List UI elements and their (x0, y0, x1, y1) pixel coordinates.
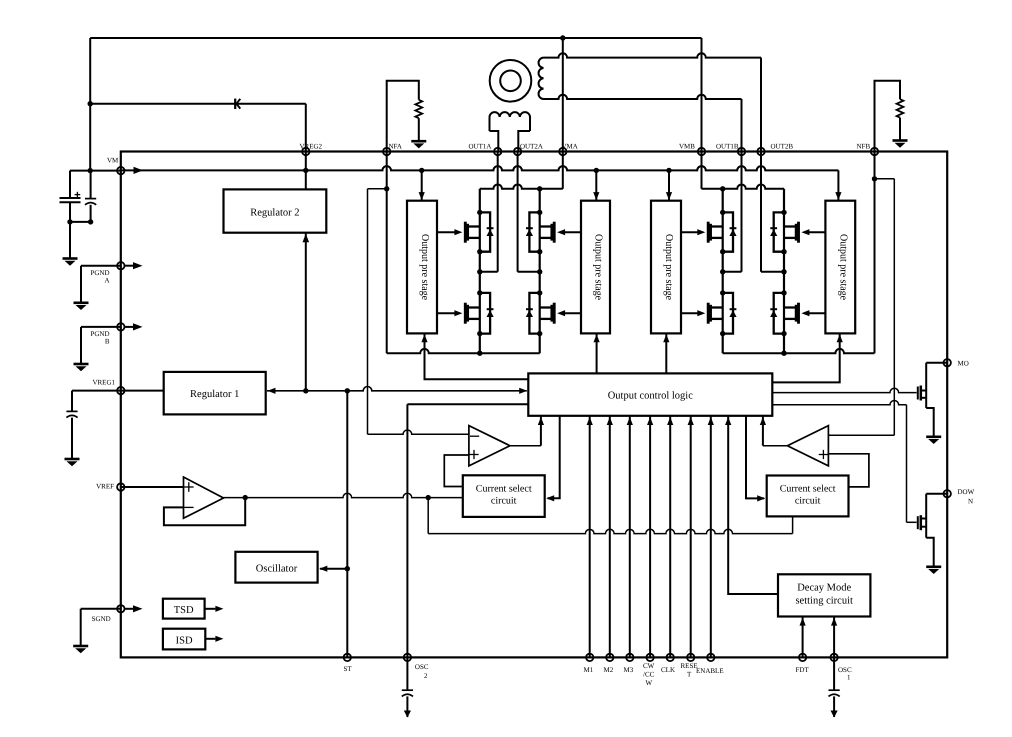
ground (C3) (65, 458, 80, 461)
wire VREG1 pin to Regulator1 (121, 390, 164, 392)
wire drop to VREG2 pin (305, 104, 307, 152)
junction node Q5/Q6 (OUT1B) y292 (720, 290, 725, 295)
wire bridge B supply rail (702, 185, 785, 189)
pin ENABLE (707, 654, 714, 661)
wire PGND A drop (80, 266, 82, 303)
wire capacitor common rail (70, 221, 91, 223)
wire C2 bottom lead (90, 205, 92, 222)
pin VM (117, 167, 124, 174)
wire ST riser (346, 391, 348, 658)
pin NFB (871, 148, 878, 155)
wire VM rail to prestage3 top (668, 170, 670, 200)
wire VMA drop to rail (562, 152, 564, 189)
pin CW (646, 654, 653, 661)
svg-text:/CC: /CC (643, 671, 655, 679)
arrow VM into chip (134, 167, 144, 174)
junction node Q3/Q4 (OUT2A) y251 (537, 249, 542, 254)
comparator U9 triangle (787, 426, 828, 466)
wire OSC2 cap lead (406, 657, 408, 690)
junction node Q5/Q6 (OUT1B) y271 (720, 269, 725, 274)
arrow ENABLE into OCL (708, 417, 714, 425)
wire gate drive B1 high (681, 231, 698, 233)
arrow comparator B into OCL (760, 417, 766, 425)
junction node Q3/Q4 (OUT2A) y212 (537, 210, 542, 215)
wire NFB jog (875, 178, 895, 180)
op-amp U7 plus input mark (184, 486, 194, 488)
svg-text:OSC: OSC (415, 663, 429, 671)
transistor Q5/Q6 (OUT1B) low-side (707, 303, 710, 324)
pin SGND (117, 605, 124, 612)
wire bridge A supply rail (480, 184, 563, 188)
svg-text:M3: M3 (623, 666, 633, 674)
junction node Q1/Q2 (OUT1A) y333 (477, 331, 482, 336)
junction node Q7/Q8 (OUT2B) y333 (781, 331, 786, 336)
svg-text:VREF: VREF (96, 482, 114, 490)
capacitor C1 electrolytic lead (69, 171, 71, 198)
capacitor C1 (electrolytic) (60, 197, 81, 199)
svg-text:OUT2A: OUT2A (520, 143, 543, 151)
pin OUT1A (494, 148, 501, 155)
transistor Q3/Q4 (OUT2A) high-side (553, 222, 556, 243)
junction VREG2 rail / reg2 output (303, 388, 308, 393)
svg-text:Output pre stage: Output pre stage (663, 234, 674, 301)
junction cap rail right (88, 219, 93, 224)
svg-text:ENABLE: ENABLE (696, 667, 724, 675)
wire DOWN gate drive (772, 400, 906, 404)
wire reference into select B (792, 516, 794, 533)
junction node Q7/Q8 (OUT2B) y212 (781, 210, 786, 215)
wire VREF pin to op-amp (121, 486, 184, 488)
wire VREG2 pin to Regulator2 input (305, 152, 307, 190)
junction railB / node B1 (720, 186, 725, 191)
pin NFA (383, 148, 390, 155)
wire MO source to ground (926, 408, 934, 436)
arrow comparator A into OCL (538, 417, 544, 425)
junction op-amp output (243, 495, 248, 500)
svg-text:CW: CW (643, 662, 655, 670)
junction node Q1/Q2 (OUT1A) y212 (477, 210, 482, 215)
ground (PGND A) (74, 301, 89, 304)
svg-text:TSD: TSD (174, 605, 194, 616)
ground (RsA) (411, 140, 426, 143)
arrow SGND into chip (125, 608, 135, 610)
transistor Q1/Q2 (OUT1A) high-side (464, 222, 467, 243)
wire VMB riser from top rail (701, 38, 703, 152)
svg-text:Output pre stage: Output pre stage (593, 234, 604, 301)
wire coil A left leg to OUT1A (490, 131, 499, 152)
svg-text:Current select: Current select (476, 483, 532, 494)
pin VMB (698, 148, 705, 155)
wire CW riser (649, 416, 651, 658)
wire internal VM rail (121, 166, 839, 170)
wire VM supply top rail (90, 37, 701, 39)
junction VM rail / prestage1 (419, 168, 424, 173)
wire Q5/Q6 (OUT1B) output drop (741, 152, 743, 272)
ground (VM capacitors) (63, 257, 78, 260)
svg-text:DOW: DOW (957, 488, 974, 496)
wire Q1/Q2 (OUT1A) output drop (497, 152, 499, 272)
wire MO gate drive (772, 388, 916, 392)
arrow RESET into OCL (688, 417, 694, 425)
svg-text:Output pre stage: Output pre stage (837, 234, 848, 301)
junction VREG2 rail / ST (345, 388, 350, 393)
wire VM rail to prestage1 top (421, 170, 423, 200)
op-amp U7 minus input mark (184, 506, 194, 508)
pin OUT2A (514, 148, 521, 155)
wire OCL to prestage2 input (596, 334, 598, 373)
svg-text:Decay Mode: Decay Mode (797, 582, 851, 593)
wire coil B bottom to OUT1B (544, 95, 742, 99)
pin MO (944, 359, 951, 366)
wire Q5/Q6 (OUT1B) output stub (723, 271, 742, 273)
wire NFA to resistor RsA (387, 81, 419, 152)
ground (SGND) (73, 645, 88, 648)
transistor Q3/Q4 (OUT2A) low-side (553, 303, 556, 324)
junction node Q3/Q4 (OUT2A) y292 (537, 290, 542, 295)
junction node Q1/Q2 (OUT1A) y271 (477, 269, 482, 274)
wire NFB to resistor RsB (875, 81, 901, 152)
junction node Q5/Q6 (OUT1B) y212 (720, 210, 725, 215)
pin VREG2 (302, 148, 309, 155)
wire MO pin lead (926, 362, 947, 364)
wire comparator B to OCL (762, 416, 764, 446)
wire DOWN drain drop (925, 494, 927, 538)
wire gate drive B1 low (681, 312, 698, 314)
wire OCL to decay circuit (728, 416, 778, 594)
output pre stage U4 box (825, 201, 855, 334)
junction source rail A / node A1 (477, 351, 482, 356)
wire bridge A source rail (387, 349, 540, 353)
wire ENABLE riser (710, 416, 712, 658)
svg-text:OUT1A: OUT1A (468, 143, 491, 151)
wire VM pin lead (70, 170, 121, 172)
wire OSC2 to OCL (407, 403, 528, 405)
comparator U8 minus mark (470, 435, 479, 437)
wire OUT1B drop (741, 99, 743, 152)
wire OCL to select A (548, 416, 560, 499)
ground (DOWN) (926, 565, 941, 568)
wire C1 bottom lead (69, 202, 71, 222)
junction VM rail / VREG2 branch (303, 168, 308, 173)
junction VM rail / prestage3 (666, 168, 671, 173)
wire NFA comparator riser (367, 189, 369, 434)
arrow into prestage2 top (593, 192, 599, 200)
wire op-amp feedback (164, 498, 245, 525)
pin OSC1 (830, 654, 837, 661)
wire cap rail to ground (69, 222, 71, 258)
transistor Q7/Q8 (OUT2B) low-side (797, 303, 800, 324)
wire VREG2 distribution rail (267, 387, 527, 391)
svg-text:setting circuit: setting circuit (795, 595, 853, 606)
wire coil A right leg to OUT2A (518, 131, 530, 152)
wire DOWN pin lead (926, 493, 947, 495)
wire C4 to arrow ground (406, 696, 408, 717)
wire oscillator input (320, 568, 347, 570)
capacitor C5 (OSC1) (829, 689, 840, 691)
wire NFA sense drop (386, 152, 388, 354)
wire RsB to ground (899, 118, 901, 140)
junction ST / oscillator branch (345, 566, 350, 571)
svg-text:Oscillator: Oscillator (256, 563, 298, 574)
svg-text:VMA: VMA (561, 143, 577, 151)
wire gate drive A1 high (437, 231, 455, 233)
capacitor C4 (OSC2) (402, 689, 413, 691)
pin PGNDB (117, 323, 124, 330)
pin ST (344, 654, 351, 661)
svg-text:T: T (687, 671, 692, 679)
capacitor C3 (VREG1) (66, 410, 77, 412)
regulator U2 box (224, 189, 327, 232)
arrow M3 into OCL (627, 417, 633, 425)
op-amp U7 triangle (184, 477, 224, 518)
wire gate drive B2 low (809, 312, 826, 314)
pin RESET (687, 654, 694, 661)
comparator U8 triangle (469, 426, 510, 466)
output pre stage U1 box (407, 201, 437, 334)
wire TSD output (205, 608, 216, 610)
svg-text:N: N (968, 498, 973, 506)
wire RsA to ground (418, 118, 420, 140)
wire FDT riser (802, 617, 804, 658)
pin M2 (606, 654, 613, 661)
ground (PGND B) (74, 363, 89, 366)
junction node Q7/Q8 (OUT2B) y292 (781, 290, 786, 295)
capacitor C2 (ceramic) (85, 198, 96, 200)
ground (RsB) (893, 139, 908, 142)
arrow into OCL left (VREG2) (519, 388, 527, 394)
wire RESET riser (690, 416, 692, 658)
current select circuit B box (767, 476, 849, 517)
output pre stage U3 box (651, 201, 681, 334)
ground (MO) (926, 435, 941, 438)
arrow into prestage1 top (419, 192, 425, 200)
arrow into Regulator1 (268, 388, 276, 394)
wire comparator A to OCL (540, 416, 542, 446)
pin OUT1B (738, 148, 745, 155)
pin VMA (559, 148, 566, 155)
wire VMA pin riser (562, 38, 564, 152)
comparator U9 plus mark (819, 454, 828, 456)
pin DOWN (944, 490, 951, 497)
arrow into Oscillator (319, 566, 327, 572)
svg-text:Output control logic: Output control logic (608, 390, 694, 401)
arrow into select A right (546, 495, 554, 501)
svg-text:VREG2: VREG2 (299, 143, 322, 151)
wire NFA to comparator A (368, 430, 469, 434)
wire gate drive A2 high (565, 231, 581, 233)
wire OSC1 cap lead (833, 657, 835, 690)
wire OSC1 riser (833, 617, 835, 658)
arrow into prestage3 bottom (663, 334, 669, 342)
junction top rail / VMA (560, 35, 565, 40)
transistor Q10 (DOWN) (920, 515, 923, 530)
pin OSC2 (404, 654, 411, 661)
junction NFA / comparator branch (384, 186, 389, 191)
regulator U1 box (164, 372, 266, 415)
wire CLK riser (669, 416, 671, 658)
svg-text:VM: VM (107, 157, 119, 165)
arrow decay line into OCL (725, 417, 731, 425)
wire reference line to B side (428, 529, 792, 533)
wire NFB sense drop (874, 152, 876, 354)
wire Regulator2 output drop (305, 233, 307, 391)
wire OCL to select B (746, 416, 764, 499)
comparator U8 plus mark (469, 454, 478, 456)
pin VREF (117, 483, 124, 490)
wire Q3/Q4 (OUT2A) output drop (517, 152, 519, 272)
svg-text:2: 2 (424, 672, 428, 680)
junction node Q3/Q4 (OUT2A) y333 (537, 331, 542, 336)
wire VREG1 lead (72, 390, 121, 392)
junction VM rail / prestage2 (594, 168, 599, 173)
wire coil B top to OUT2B (544, 53, 762, 57)
svg-text:Output pre stage: Output pre stage (419, 234, 430, 301)
junction node Q7/Q8 (OUT2B) y251 (781, 249, 786, 254)
decay mode setting circuit box (778, 574, 870, 616)
IC chip boundary (121, 152, 947, 658)
pin CLK (667, 654, 674, 661)
svg-text:CLK: CLK (661, 666, 675, 674)
TSD box (163, 599, 205, 619)
output control logic U5 box (528, 373, 772, 415)
svg-text:MO: MO (957, 360, 968, 368)
junction railA / node A2 (537, 186, 542, 191)
wire reference branch down (427, 498, 429, 534)
junction node Q1/Q2 (OUT1A) y251 (477, 249, 482, 254)
pin VREG1 (117, 387, 124, 394)
junction cap rail left (67, 219, 72, 224)
arrow into select B left (757, 495, 765, 501)
junction VM lead / supply drop (88, 168, 93, 173)
wire ISD output (205, 638, 215, 640)
svg-text:FDT: FDT (795, 666, 809, 674)
arrow into prestage2 bottom (594, 334, 600, 342)
svg-text:Regulator 2: Regulator 2 (250, 207, 299, 218)
wire Q7/Q8 (OUT2B) output stub (761, 271, 784, 273)
transistor Q1/Q2 (OUT1A) low-side (464, 303, 467, 324)
junction NFB / comparator branch (872, 176, 877, 181)
wire VMB drop to rail (701, 152, 703, 189)
output pre stage U2 box (581, 201, 610, 334)
wire DOWN source to ground (926, 538, 934, 567)
pin FDT (799, 654, 806, 661)
wire M2 riser (609, 416, 611, 658)
wire OCL to prestage4 input (772, 334, 839, 382)
motor M (outer circle) (490, 60, 532, 102)
capacitor C2 lead (90, 171, 92, 199)
wire C3 to ground (71, 418, 73, 459)
wire PGND A lead (81, 265, 121, 267)
wire Q1/Q2 (OUT1A) output stub (480, 271, 498, 273)
ground arrow (OSC1) (831, 711, 838, 718)
wire select A to comparator A plus (444, 455, 469, 487)
wire NFA jog (368, 188, 387, 190)
arrow into prestage4 top (835, 192, 841, 200)
wire VM rail to prestage2 top (595, 170, 597, 200)
arrow OSC1 into decay box (831, 618, 837, 626)
svg-text:W: W (645, 679, 652, 687)
wire PGND B lead (81, 326, 121, 328)
pin OUT2B (757, 148, 764, 155)
junction node Q1/Q2 (OUT1A) y292 (477, 290, 482, 295)
wire NFB comparator riser (893, 179, 895, 435)
svg-text:ST: ST (343, 665, 352, 673)
wire bridge node Q5/Q6 (OUT1B) (722, 189, 724, 353)
ground arrow (OSC2) (404, 711, 411, 718)
svg-text:M1: M1 (583, 666, 593, 674)
svg-text:NFB: NFB (856, 143, 870, 151)
transistor Q9 (MO) (920, 386, 923, 401)
wire M3 riser (629, 416, 631, 658)
arrow M1 into OCL (587, 417, 593, 425)
wire bridge node Q1/Q2 (OUT1A) (479, 189, 481, 353)
wire OUT2B drop (760, 58, 762, 152)
current select circuit A box (463, 475, 545, 517)
junction node Q5/Q6 (OUT1B) y333 (720, 331, 725, 336)
transistor Q7/Q8 (OUT2B) high-side (797, 222, 800, 243)
arrow M2 into OCL (607, 417, 613, 425)
inductor coil A (motor winding A) (490, 112, 531, 131)
wire bridge B source rail (723, 349, 875, 353)
wire OCL to prestage3 input (665, 334, 667, 373)
pin PGNDA (117, 262, 124, 269)
svg-text:OUT1B: OUT1B (716, 143, 739, 151)
junction node Q7/Q8 (OUT2B) y271 (781, 269, 786, 274)
capacitor K (series) on VREG2 wire (234, 99, 236, 109)
arrow into prestage1 bottom (421, 334, 427, 342)
pin M3 (626, 654, 633, 661)
arrow PGND B into chip (125, 326, 135, 328)
wire OCL to prestage1 input (425, 334, 529, 379)
arrow PGND A into chip (125, 265, 135, 267)
arrow into prestage3 top (666, 192, 672, 200)
svg-text:Current select: Current select (780, 483, 836, 494)
wire VM supply left drop (89, 38, 91, 171)
wire PGND B drop (80, 327, 82, 364)
wire comparator A output (510, 445, 541, 447)
svg-text:circuit: circuit (795, 495, 821, 506)
oscillator U6 box (235, 552, 317, 583)
wire C5 to arrow ground (833, 696, 835, 717)
resistor RsB (sense B) (897, 99, 904, 117)
svg-text:A: A (104, 276, 109, 284)
wire VREF reference line (224, 493, 463, 497)
wire gate drive A1 low (437, 312, 455, 314)
junction node Q5/Q6 (OUT1B) y251 (720, 249, 725, 254)
junction source rail B / node B2 (781, 351, 786, 356)
wire SGND lead (81, 608, 121, 610)
arrow into Regulator2 bottom (303, 234, 310, 243)
svg-text:M2: M2 (603, 666, 613, 674)
svg-text:VMB: VMB (679, 143, 695, 151)
inductor coil B (motor winding B) (539, 58, 544, 99)
svg-text:Regulator 1: Regulator 1 (190, 389, 239, 400)
ISD box (163, 629, 205, 650)
wire OSC2 riser (406, 404, 408, 657)
junction VM drop / K-branch (88, 101, 93, 106)
wire select B to comparator B plus (828, 454, 869, 487)
svg-text:VREG1: VREG1 (92, 378, 115, 386)
arrow CLK into OCL (667, 417, 673, 425)
wire Q7/Q8 (OUT2B) output drop (760, 152, 762, 272)
arrow into prestage4 bottom (837, 334, 843, 342)
arrow FDT into decay box (800, 618, 806, 626)
wire gate drive B2 high (809, 231, 826, 233)
wire NFB to comparator B (828, 434, 894, 436)
wire M1 riser (589, 416, 591, 658)
wire SGND drop (80, 609, 82, 646)
junction node Q3/Q4 (OUT2A) y271 (537, 269, 542, 274)
